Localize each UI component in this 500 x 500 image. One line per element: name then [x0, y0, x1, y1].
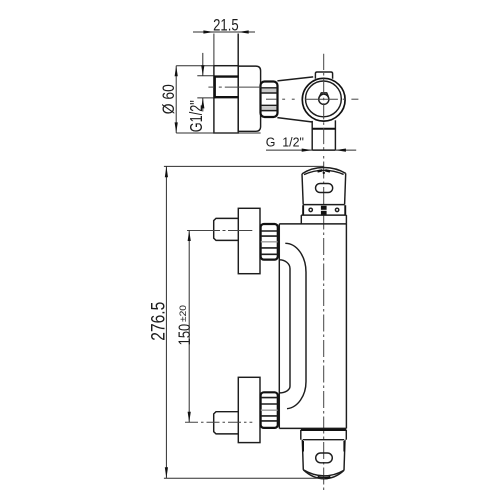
svg-text:G 1/2": G 1/2"	[266, 135, 305, 150]
svg-text:±20: ±20	[178, 305, 189, 322]
svg-text:Ø 60: Ø 60	[160, 84, 178, 114]
svg-text:150: 150	[175, 324, 194, 346]
